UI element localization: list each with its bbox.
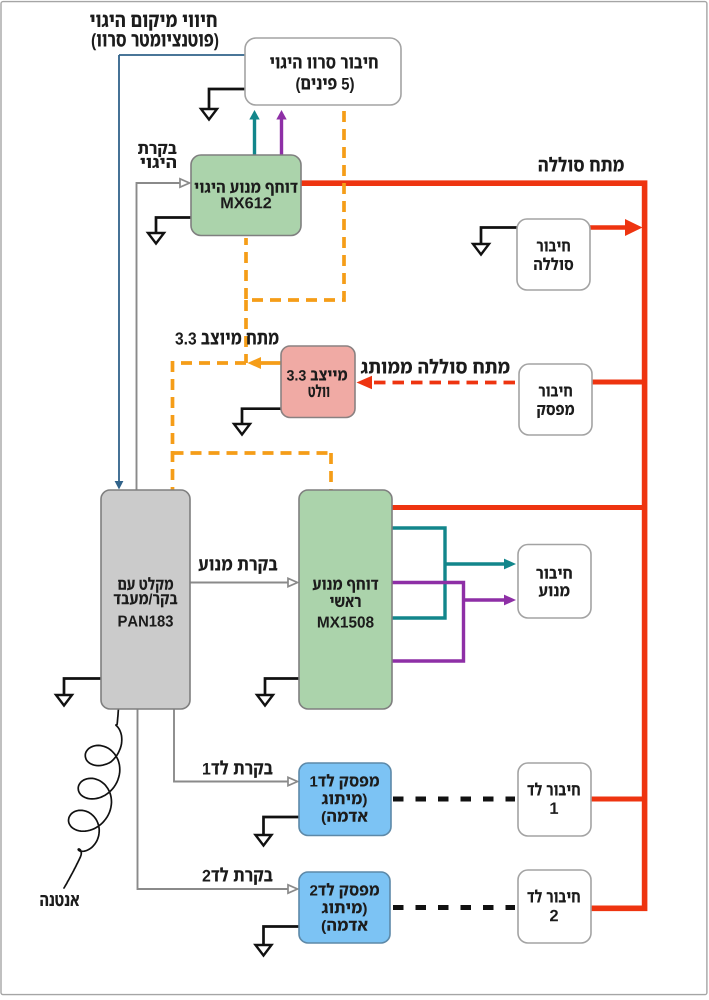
text switch connector line1 — [539, 387, 572, 397]
connector J4 motor — [518, 545, 591, 619]
text MX1508 line3 — [318, 616, 374, 627]
arrow motor drive B (purple) — [504, 595, 516, 606]
wire LED connector 1 to battery bus (red) — [590, 797, 644, 802]
text servo connector line1 — [270, 57, 378, 68]
text LED1 connector line2 — [550, 803, 558, 814]
receiver/MCU U3 PAN183 — [101, 490, 190, 709]
text LED1 switch line1 — [310, 774, 379, 790]
label LED1 control — [203, 760, 273, 778]
ground at battery connector — [473, 228, 517, 255]
text switch connector line2 — [537, 405, 574, 418]
steering motor driver U1 MX612 — [191, 155, 301, 236]
wire servo drive B (purple, arrow up) — [276, 110, 286, 155]
wire MX1508 to battery bus (red) — [391, 505, 644, 510]
label switched battery voltage — [361, 359, 510, 374]
text LED2 switch line1 — [310, 883, 379, 899]
wire battery connector to bus (red, arrow) — [589, 219, 643, 236]
text MX1508 line2 — [330, 597, 361, 607]
text LED2 connector line2 — [550, 910, 558, 922]
wire LED1 control (gray, arrow) — [174, 709, 298, 786]
label antenna — [40, 895, 79, 906]
text LED1 switch line3 — [322, 811, 368, 825]
regulator U2 3.3V — [281, 346, 355, 418]
label battery voltage — [539, 157, 624, 172]
text MX612 line2 — [221, 197, 271, 208]
label steering position note line1 — [90, 14, 216, 30]
label steering control line2 — [140, 158, 176, 168]
text battery connector line2 — [534, 257, 573, 270]
connector J6 LED 2 — [518, 870, 591, 943]
text regulator line1 — [287, 370, 347, 381]
text PAN183 line3 — [119, 615, 173, 626]
wire servo drive A (teal, arrow up) — [249, 110, 259, 155]
ground at PAN183 — [56, 679, 101, 706]
text motor connector line2 — [539, 586, 570, 597]
connector J1 steering servo (5 pins) — [245, 38, 401, 105]
ground at LED1 switch — [256, 817, 300, 846]
ground at servo connector — [201, 89, 245, 120]
text LED1 connector line1 — [527, 782, 579, 795]
text motor connector line1 — [536, 569, 572, 579]
text MX612 line1 — [195, 183, 298, 196]
text PAN183 line2 — [114, 594, 178, 608]
wire switched battery voltage (red dashed, arrow into regulator) — [357, 376, 520, 390]
wire motor drive B (purple) — [391, 583, 505, 662]
connector J5 LED 1 — [518, 763, 591, 836]
wire 3.3V regulator output (orange dashed, arrow) — [173, 357, 282, 369]
text LED2 switch line2 — [322, 903, 367, 917]
text battery connector line1 — [537, 242, 570, 252]
connector J3 power switch — [519, 364, 592, 435]
text PAN183 line1 — [118, 577, 173, 593]
label regulated voltage 3.3 — [175, 332, 278, 344]
wire LED1 switched ground (black dashed) — [393, 797, 515, 802]
label LED2 control — [203, 867, 273, 885]
arrow motor drive A (teal) — [504, 559, 516, 570]
text servo connector line2 — [296, 77, 354, 93]
text MX1508 line1 — [313, 580, 379, 593]
wire battery voltage bus (red) — [300, 180, 647, 908]
wire 3.3V net lower (orange dashed) — [173, 361, 332, 490]
wire motor control (gray, arrow into MX1508) — [190, 578, 298, 586]
connector J2 battery — [517, 219, 590, 290]
ground at 3.3V regulator — [234, 409, 281, 435]
ground at MX1508 — [257, 679, 299, 706]
ground at LED2 switch — [256, 927, 300, 956]
antenna coil — [64, 708, 122, 888]
LED2 switch Q2 (blue) — [299, 872, 390, 943]
text LED2 switch line3 — [322, 920, 368, 934]
wire switch connector to battery bus (red) — [589, 380, 644, 385]
wire motor drive A (teal) — [391, 528, 505, 618]
text regulator line2 — [309, 384, 330, 397]
wire LED2 switched ground (black dashed) — [393, 905, 515, 910]
wire steering control (gray, arrow into MX612) — [137, 179, 190, 490]
label motor control — [199, 559, 278, 574]
text LED2 connector line1 — [527, 889, 579, 902]
wire steering position indication (blue, arrow into PAN183) — [115, 55, 245, 490]
label steering control line1 — [138, 144, 177, 157]
wire LED2 control (gray, arrow) — [138, 709, 298, 893]
wire 3.3V net upper (orange dashed) — [246, 111, 344, 363]
LED1 switch Q1 (blue) — [299, 763, 391, 836]
main motor driver U4 MX1508 — [299, 490, 392, 709]
ground at MX612 — [148, 218, 191, 244]
text LED1 switch line2 — [322, 794, 367, 808]
label steering position note line2 — [92, 33, 218, 50]
